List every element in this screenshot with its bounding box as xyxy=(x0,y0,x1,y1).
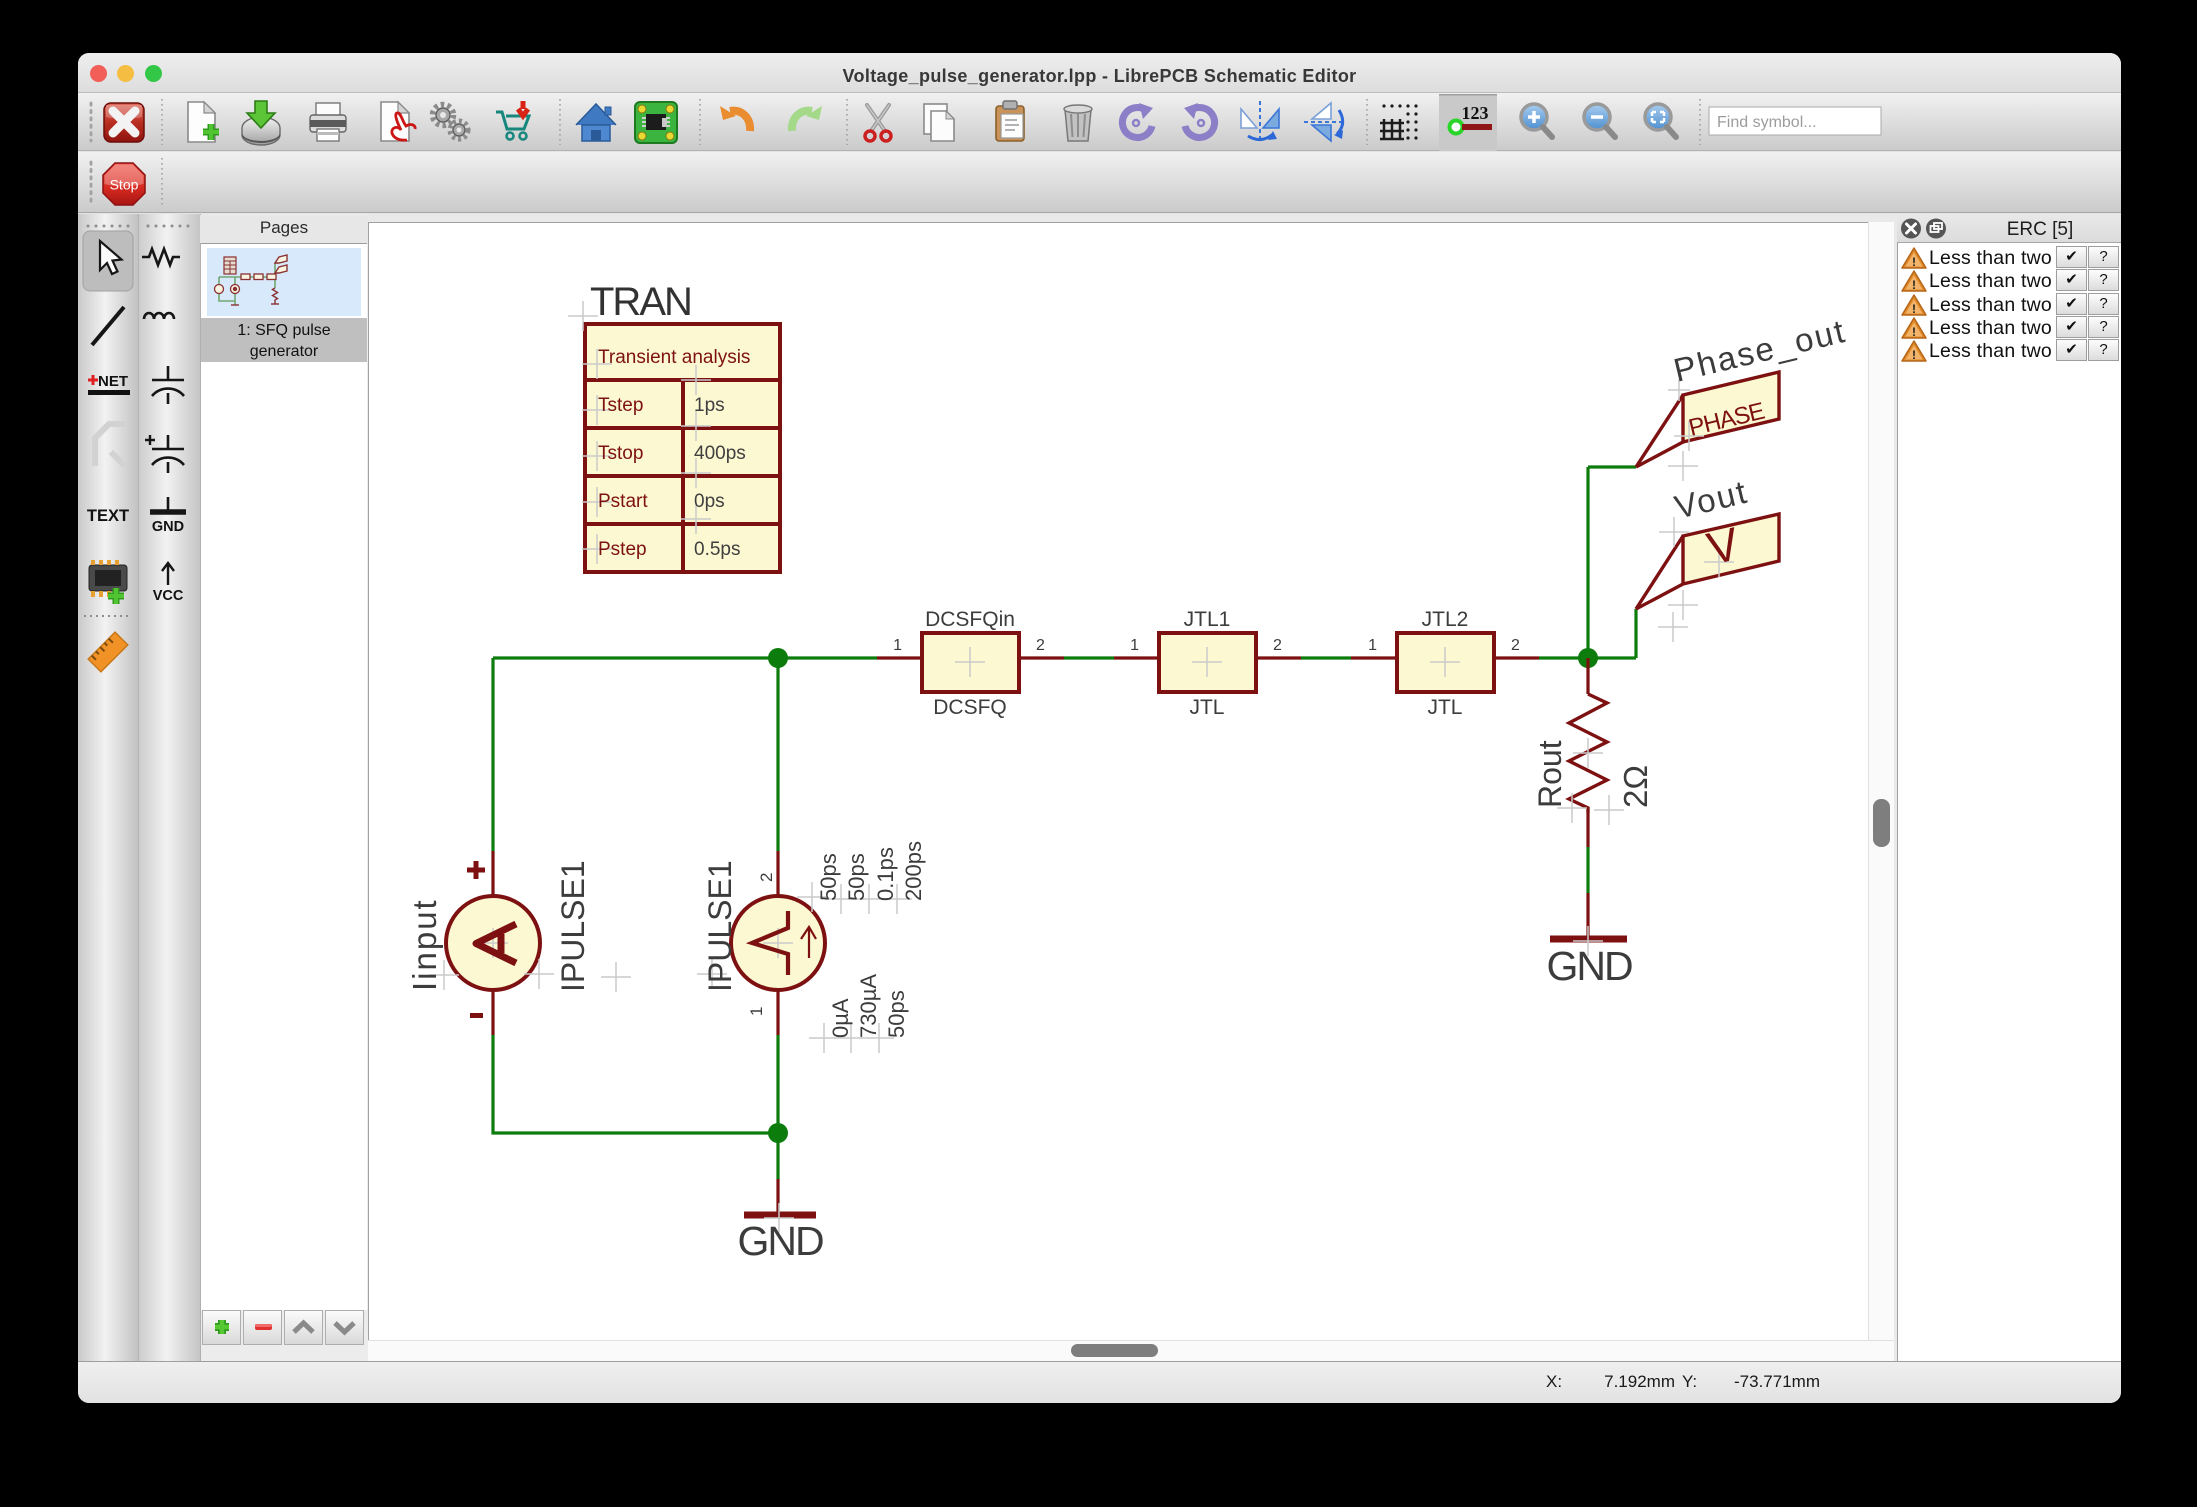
svg-text:GND: GND xyxy=(152,519,184,535)
svg-text:GND: GND xyxy=(737,1218,823,1264)
svg-text:0.5ps: 0.5ps xyxy=(694,539,740,560)
svg-text:TEXT: TEXT xyxy=(87,507,129,525)
svg-text:GND: GND xyxy=(1546,943,1632,989)
svg-text:!: ! xyxy=(1912,255,1916,269)
svg-text:!: ! xyxy=(1912,302,1916,316)
svg-text:DCSFQ: DCSFQ xyxy=(933,696,1007,719)
svg-text:123: 123 xyxy=(1462,103,1489,123)
svg-text:TRAN: TRAN xyxy=(590,280,691,324)
svg-text:1: 1 xyxy=(1368,637,1377,654)
svg-text:2: 2 xyxy=(1511,637,1520,654)
svg-text:JTL: JTL xyxy=(1189,696,1224,719)
svg-text:Transient analysis: Transient analysis xyxy=(598,347,750,368)
svg-text:Pstep: Pstep xyxy=(598,539,647,560)
svg-text:JTL2: JTL2 xyxy=(1422,608,1469,631)
svg-text:1: 1 xyxy=(1130,637,1139,654)
svg-text:!: ! xyxy=(1912,278,1916,292)
svg-text:JTL: JTL xyxy=(1427,696,1462,719)
svg-text:JTL1: JTL1 xyxy=(1184,608,1231,631)
svg-text:200ps: 200ps xyxy=(901,841,926,901)
svg-text:2Ω: 2Ω xyxy=(1617,765,1654,808)
svg-text:Find symbol...: Find symbol... xyxy=(1717,114,1817,131)
svg-text:!: ! xyxy=(1912,348,1916,362)
svg-text:1: 1 xyxy=(893,637,902,654)
svg-text:730µA: 730µA xyxy=(856,974,881,1038)
svg-text:1ps: 1ps xyxy=(694,395,725,416)
svg-text:IPULSE1: IPULSE1 xyxy=(702,860,738,992)
svg-text:Tstep: Tstep xyxy=(598,395,643,416)
svg-text:VCC: VCC xyxy=(153,588,184,604)
svg-text:0µA: 0µA xyxy=(828,998,853,1038)
svg-text:50ps: 50ps xyxy=(844,853,869,901)
svg-text:0ps: 0ps xyxy=(694,491,725,512)
svg-text:50ps: 50ps xyxy=(884,990,909,1038)
svg-text:Iinput: Iinput xyxy=(406,898,443,991)
svg-text:50ps: 50ps xyxy=(816,853,841,901)
svg-text:NET: NET xyxy=(98,373,128,390)
svg-text:!: ! xyxy=(1912,325,1916,339)
svg-text:2: 2 xyxy=(1273,637,1282,654)
svg-text:Stop: Stop xyxy=(110,177,139,193)
svg-text:1: 1 xyxy=(747,1007,766,1016)
svg-text:2: 2 xyxy=(757,873,776,882)
svg-text:DCSFQin: DCSFQin xyxy=(925,608,1015,631)
svg-text:0.1ps: 0.1ps xyxy=(873,847,898,901)
svg-text:400ps: 400ps xyxy=(694,443,746,464)
svg-text:2: 2 xyxy=(1036,637,1045,654)
svg-text:IPULSE1: IPULSE1 xyxy=(555,860,591,992)
svg-text:Rout: Rout xyxy=(1532,740,1568,808)
svg-text:Tstop: Tstop xyxy=(598,443,643,464)
svg-text:Pstart: Pstart xyxy=(598,491,648,512)
